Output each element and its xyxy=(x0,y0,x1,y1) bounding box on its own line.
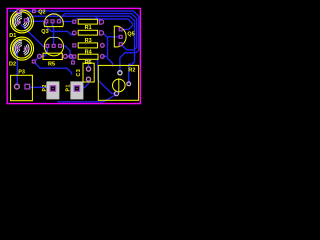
via on bus line1 second xyxy=(33,10,36,13)
Q5 pad 1 xyxy=(119,28,122,31)
D2 pad 1 ring xyxy=(16,46,19,49)
C3 top pad ring xyxy=(86,67,90,71)
Q3 pad 3 xyxy=(59,44,62,47)
Q2 pad 3 xyxy=(57,20,60,23)
wire R1 right pad joining bus line 3 xyxy=(95,16,100,21)
R1 right pad D xyxy=(100,20,104,24)
P3 pad 2 square with hole xyxy=(25,84,30,89)
Q3 pad 2 xyxy=(52,44,55,47)
wire bus line 4: R1 left pad to Q5 pad1 xyxy=(75,19,132,30)
capacitor C3 box xyxy=(83,63,94,82)
connector P3 box xyxy=(11,75,33,100)
LED D2 inner circle xyxy=(13,39,32,58)
R2 trimpot slot line xyxy=(118,78,120,92)
svg-text:Q2: Q2 xyxy=(38,10,45,16)
R5 left pad ring xyxy=(38,54,42,58)
R1 left pad xyxy=(73,20,76,23)
R2 pad A ring xyxy=(118,71,122,75)
connector P1 box grey xyxy=(70,81,83,99)
wire Q2 pad2 down to Q3 pad2 xyxy=(53,22,54,45)
via right of R5 xyxy=(72,61,75,64)
P1 pad xyxy=(74,86,79,91)
R6 right pad ring xyxy=(100,55,104,59)
R5 right pad ring xyxy=(63,54,67,58)
transistor Q3 outline xyxy=(44,38,63,56)
svg-text:D1: D1 xyxy=(9,33,16,39)
wire bus line 2: Q2 pad3 to Q5 pad3 xyxy=(59,14,137,50)
wire D1 pad1 diagonal to Q3 pad1 xyxy=(21,25,47,47)
LED D2 outer circle xyxy=(11,37,34,60)
P3 pad 1 ring xyxy=(15,84,20,89)
Q3 pad 1 xyxy=(46,44,49,47)
D2 pad 2 ring xyxy=(24,47,27,50)
wire via to C3 side ring pad xyxy=(34,62,72,75)
Q2 grey top arc xyxy=(51,13,57,15)
R2 trimpot circle xyxy=(113,79,126,92)
wire Q5 pad2 to R3 right pad xyxy=(103,33,121,36)
board outline xyxy=(7,8,140,103)
transistor Q5 outline xyxy=(114,26,126,47)
R4 right pad ring xyxy=(100,44,104,48)
D2 hatch arcs xyxy=(14,40,29,55)
wire Q2 pad1 to R3 left pad xyxy=(46,22,74,35)
svg-text:C3: C3 xyxy=(76,69,82,77)
svg-text:R5: R5 xyxy=(48,61,55,67)
R4 left pad xyxy=(73,44,76,47)
svg-text:P1: P1 xyxy=(66,84,72,92)
R2 pad B ring xyxy=(127,82,131,86)
R2 pad C square xyxy=(114,92,118,96)
resistor R4 body xyxy=(78,43,97,48)
wire P3 pad2 to P2 pad xyxy=(29,86,52,88)
resistor R6 body (4th in stack) xyxy=(78,54,98,59)
C3 bottom pad ring xyxy=(86,77,90,81)
svg-text:P3: P3 xyxy=(18,70,25,76)
D1 hatch arcs xyxy=(14,13,29,28)
wire C3 bottom pad to P1 pad xyxy=(78,80,89,88)
wire bottom rail to R2 pad C xyxy=(58,94,117,102)
trimpot R2 box xyxy=(98,65,138,100)
wire D2 pad down to P3 pad1 xyxy=(16,50,18,86)
wire R6 area down to R2 pad C xyxy=(98,59,116,94)
transistor Q2 outline xyxy=(44,14,63,27)
resistor R1 body xyxy=(78,19,97,24)
R3 right pad D xyxy=(100,31,104,35)
wire Q2 pad3 to R1 left pad xyxy=(60,21,73,23)
LED D1 outer circle xyxy=(10,10,33,33)
R3 left pad xyxy=(72,31,76,35)
wire Q3 pad3 to via right of R5 xyxy=(61,46,74,62)
svg-text:D2: D2 xyxy=(9,61,16,67)
resistor R3 body xyxy=(78,30,97,35)
Q3 chord grey xyxy=(49,36,58,38)
resistor R5 body xyxy=(43,53,62,59)
P2 pad xyxy=(50,86,55,91)
wire Q3 pad1 down to R5 left pad xyxy=(40,47,48,56)
LED D1 inner circle xyxy=(12,12,31,31)
wire R6 right pad to vertical xyxy=(103,55,108,57)
D1 pad 2 via square xyxy=(24,19,27,22)
svg-text:R2: R2 xyxy=(128,68,135,74)
svg-text:Q3: Q3 xyxy=(41,29,48,35)
Q5 pad 2 xyxy=(119,35,122,38)
svg-text:P2: P2 xyxy=(42,84,48,92)
via on bus line1 xyxy=(17,10,20,13)
Q2 pad 2 xyxy=(51,20,54,23)
svg-text:Q5: Q5 xyxy=(127,32,134,38)
Q5 pad 3 xyxy=(119,43,122,46)
wire D1 pad2 to Q2 pad1 xyxy=(28,20,45,22)
via left of R5 xyxy=(32,60,35,63)
connector P2 box grey xyxy=(46,81,59,99)
wire R5 left pad to via xyxy=(34,58,38,61)
wire C3 top pad up to R6 xyxy=(88,60,90,68)
D1 pad 1 ring xyxy=(18,21,21,24)
wire R5 right pad to R6 left pad xyxy=(67,55,74,57)
R6 left pad xyxy=(73,55,76,58)
wire bus line 3: D1 pad2 to R2 pad B xyxy=(27,16,135,84)
R5 second right ring pad xyxy=(69,55,73,59)
wire vertical from Q5 pad2 line down to R2 box xyxy=(108,37,113,67)
wire bus line 1: top rail to R2 pad A xyxy=(10,11,139,73)
Q2 pad 1 xyxy=(45,20,48,23)
